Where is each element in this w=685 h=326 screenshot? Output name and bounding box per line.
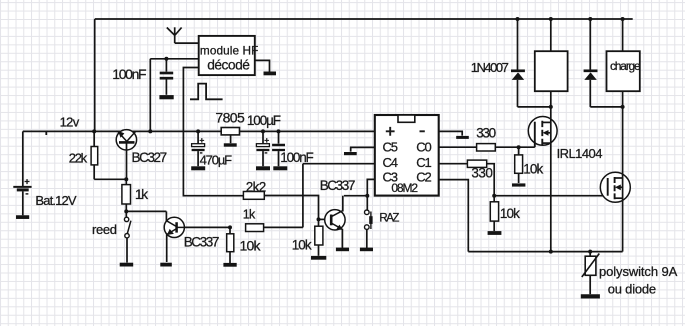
node junction dot base/1k [124,177,128,181]
relay box [535,51,568,91]
diode D2 [584,71,598,107]
svg-text:reed: reed [92,222,117,237]
node junction dot 100nF [164,57,168,61]
svg-text:IRL1404: IRL1404 [557,146,603,161]
node junction dot top rail charge [621,17,625,21]
wire Q3 base link [319,218,332,220]
wire C0 lead [439,146,477,148]
svg-text:BC337: BC337 [184,234,219,249]
wire stray tick on 12v rail [45,131,47,135]
diode D1 1N4007 [511,71,525,107]
svg-text:10k: 10k [240,237,262,253]
svg-text:1k: 1k [243,207,256,221]
polyswitch F1 [582,254,600,295]
svg-text:C2: C2 [416,170,431,185]
wire charge riser [622,19,624,51]
wire Q3 emitter drop [341,229,343,248]
wire bottom rail [468,251,622,253]
wire C2 to bottom rail [439,180,469,252]
wire 10k3 upper lead [518,147,520,155]
svg-text:polyswitch 9A: polyswitch 9A [599,264,678,279]
wire C4 run [303,163,375,165]
wire 10k lower lead [229,252,231,263]
wire left riser from top rail to 12v rail [94,19,96,131]
svg-text:10k: 10k [292,238,312,253]
wire relay riser [550,19,552,51]
wire riser to C4 [302,164,304,228]
wire module output down to 2k2 [183,68,243,196]
svg-text:10k: 10k [500,206,520,221]
ground 470uF [191,166,205,170]
node junction dot top rail diode2 [588,17,592,21]
svg-text:08M2: 08M2 [391,181,418,195]
transistor Q1 BC327 [116,130,136,180]
wire 22k upper lead [93,131,95,146]
node junction dot collector/module power [148,129,152,133]
svg-text:22k: 22k [69,150,88,165]
wire module power riser [149,59,151,132]
node junction dot source1/bottom rail [549,250,553,254]
svg-text:100nF: 100nF [112,66,146,82]
ground polyswitch [581,294,600,298]
resistor 330 gate2 [467,160,486,167]
wire relay bottom lead [550,91,552,107]
svg-text:décodé: décodé [207,58,250,73]
wire diode1 drop [517,19,519,70]
svg-text:-: - [25,188,28,199]
wire module ground run [255,60,270,71]
svg-text:charge: charge [610,59,641,73]
svg-text:BC327: BC327 [132,150,167,165]
capacitor 100uF [256,131,269,166]
node junction dot Q3 base [317,217,321,221]
wire Q2 base from 1k [185,226,231,228]
wire 1k lower lead [125,204,127,217]
resistor 330 gate1 [477,144,496,151]
ground 10k gate2 [488,231,502,235]
wire 10k3 lower lead [518,173,520,183]
svg-text:C4: C4 [383,155,398,170]
ground reed [120,263,134,267]
resistor 22k [91,147,98,165]
switch reed [124,217,130,262]
svg-text:470µF: 470µF [200,152,233,167]
node junction dot polyswitch/bottom rail [588,250,592,254]
mosfet M1 IRL1404 [528,107,557,252]
svg-text:100nF: 100nF [280,150,313,165]
wire C3 net [344,179,375,210]
svg-text:BC337: BC337 [320,178,355,193]
wire diode2 drop [589,19,591,70]
wire module power run [150,58,198,60]
wire 22k to base node [94,178,126,180]
node junction dot base/10k [228,225,232,229]
svg-text:1N4007: 1N4007 [471,60,509,75]
wire 330 to gate [495,146,535,148]
resistor 1k (reed) [122,185,131,204]
wire gate2 run [494,195,608,197]
node junction dot reed/collector wire [124,209,128,213]
capacitor 100nF2 [272,131,285,166]
wire Q3 collector riser [342,196,344,212]
ground 10k gate1 [512,183,525,186]
wire 1k right lead [264,226,303,228]
ground Q3 emitter [336,248,349,252]
node junction dot 12v/22k [92,129,96,133]
wire reed node to Q2 collector [126,210,166,212]
switch RAZ [365,210,371,248]
svg-text:+: + [24,176,30,187]
capacitor 100nF module [160,59,174,95]
wire 10k2 upper lead [318,219,320,226]
IC U1 08M2 [375,115,439,196]
wire 12v rail [23,130,375,132]
node junction dot C3 [365,194,369,198]
wire 330b to junction [487,164,495,196]
svg-text:100µF: 100µF [247,113,281,128]
svg-text:ou diode: ou diode [608,282,656,297]
node junction dot top rail relay [549,17,553,21]
node junction dot drain1 [549,105,553,109]
wire C5 ground run [351,147,375,151]
svg-text:RAZ: RAZ [379,213,399,225]
wire Q2 collector drop [165,211,167,221]
svg-text:module HF: module HF [200,43,259,57]
wire 2k2 to Q3 base [264,196,318,220]
wire 10k2 lower lead [318,245,320,256]
svg-text:7805: 7805 [215,110,245,126]
svg-text:12v: 12v [60,115,80,130]
ground 100nF [159,95,173,99]
ground 10k Q2 [223,263,236,267]
resistor 10k pulldown Q3 [315,226,323,245]
node junction dot 100uF [261,129,265,133]
svg-text:-: - [265,148,268,158]
wire 22k lower lead [93,165,95,179]
svg-text:Bat.12V: Bat.12V [35,193,76,208]
wire 1k upper lead [125,179,127,184]
svg-text:330: 330 [471,166,492,181]
node junction dot 100nF2 [277,129,281,133]
node junction dot top rail diode1 [516,17,520,21]
transistor Q3 BC337 [325,210,345,230]
module HF box U-HF [199,36,259,75]
wire minus pin ground run [439,131,463,135]
resistor 10k gate2 [490,202,498,221]
wire 7805 ground lead [230,135,232,143]
antenna [167,27,199,43]
regulator 7805 [215,110,245,135]
ground 10k Q3 [311,256,326,260]
transistor Q2 BC337 (mirrored) [164,217,184,262]
svg-text:C5: C5 [383,139,398,154]
battery Bat.12V [13,176,31,217]
node junction dot 470uF [196,129,200,133]
svg-text:C1: C1 [416,155,431,170]
resistor 10k gate1 [515,155,523,173]
charge box [607,51,642,91]
svg-text:330: 330 [476,125,495,140]
resistor 2k2 [243,192,264,200]
resistor 10k pulldown Q2 [227,234,234,252]
wire top +12V rail [95,18,633,20]
ground module [264,72,277,76]
wire 10k4 lower lead [493,221,495,231]
node junction dot gate1/10k [517,145,521,149]
svg-text:+: + [199,135,204,145]
ground minus pin [456,136,469,139]
wire C1 lead [439,163,468,165]
ground RAZ [360,248,373,252]
ground 7805 [224,143,237,146]
ground C5 [344,152,357,155]
wire diode2 to charge bottom [590,106,622,108]
mosfet M2 IRL1404 [600,107,630,252]
ground 100nF2 [273,166,287,170]
pulse symbol [190,84,223,100]
wire battery drop [22,131,24,186]
svg-text:+: + [264,135,269,145]
node junction dot drain2 [621,105,625,109]
node junction dot gate2/10k [492,194,496,198]
wire 10k upper lead [229,227,231,233]
wire diode1 to relay bottom [518,106,551,108]
svg-text:2k2: 2k2 [246,179,266,194]
ground 100uF [256,166,270,170]
resistor 1k base Q2 [246,224,264,232]
capacitor 470uF [192,131,205,166]
wire charge bottom lead [622,91,624,107]
wire 10k4 upper lead [493,196,495,202]
wire polyswitch upper lead [589,252,591,257]
svg-text:C0: C0 [416,139,431,154]
ground Q2 emitter [160,263,172,267]
svg-text:10k: 10k [523,161,543,176]
